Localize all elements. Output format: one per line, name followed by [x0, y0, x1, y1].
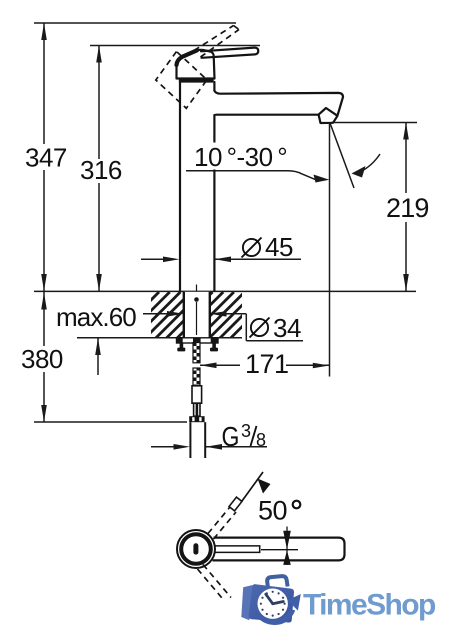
svg-text:171: 171	[245, 349, 289, 379]
svg-text:max.60: max.60	[56, 302, 136, 332]
svg-text:219: 219	[386, 193, 429, 223]
svg-text:380: 380	[21, 344, 63, 374]
svg-text:34: 34	[273, 313, 301, 343]
svg-text:G: G	[222, 421, 240, 452]
svg-text:347: 347	[25, 143, 67, 173]
svg-text:3: 3	[241, 421, 251, 441]
svg-text:50: 50	[258, 496, 287, 526]
svg-text:8: 8	[256, 430, 266, 450]
svg-text:316: 316	[80, 155, 122, 185]
svg-text:10 °-30 °: 10 °-30 °	[194, 142, 287, 172]
svg-text:TimeShop: TimeShop	[303, 589, 436, 622]
svg-text:45: 45	[265, 232, 293, 262]
